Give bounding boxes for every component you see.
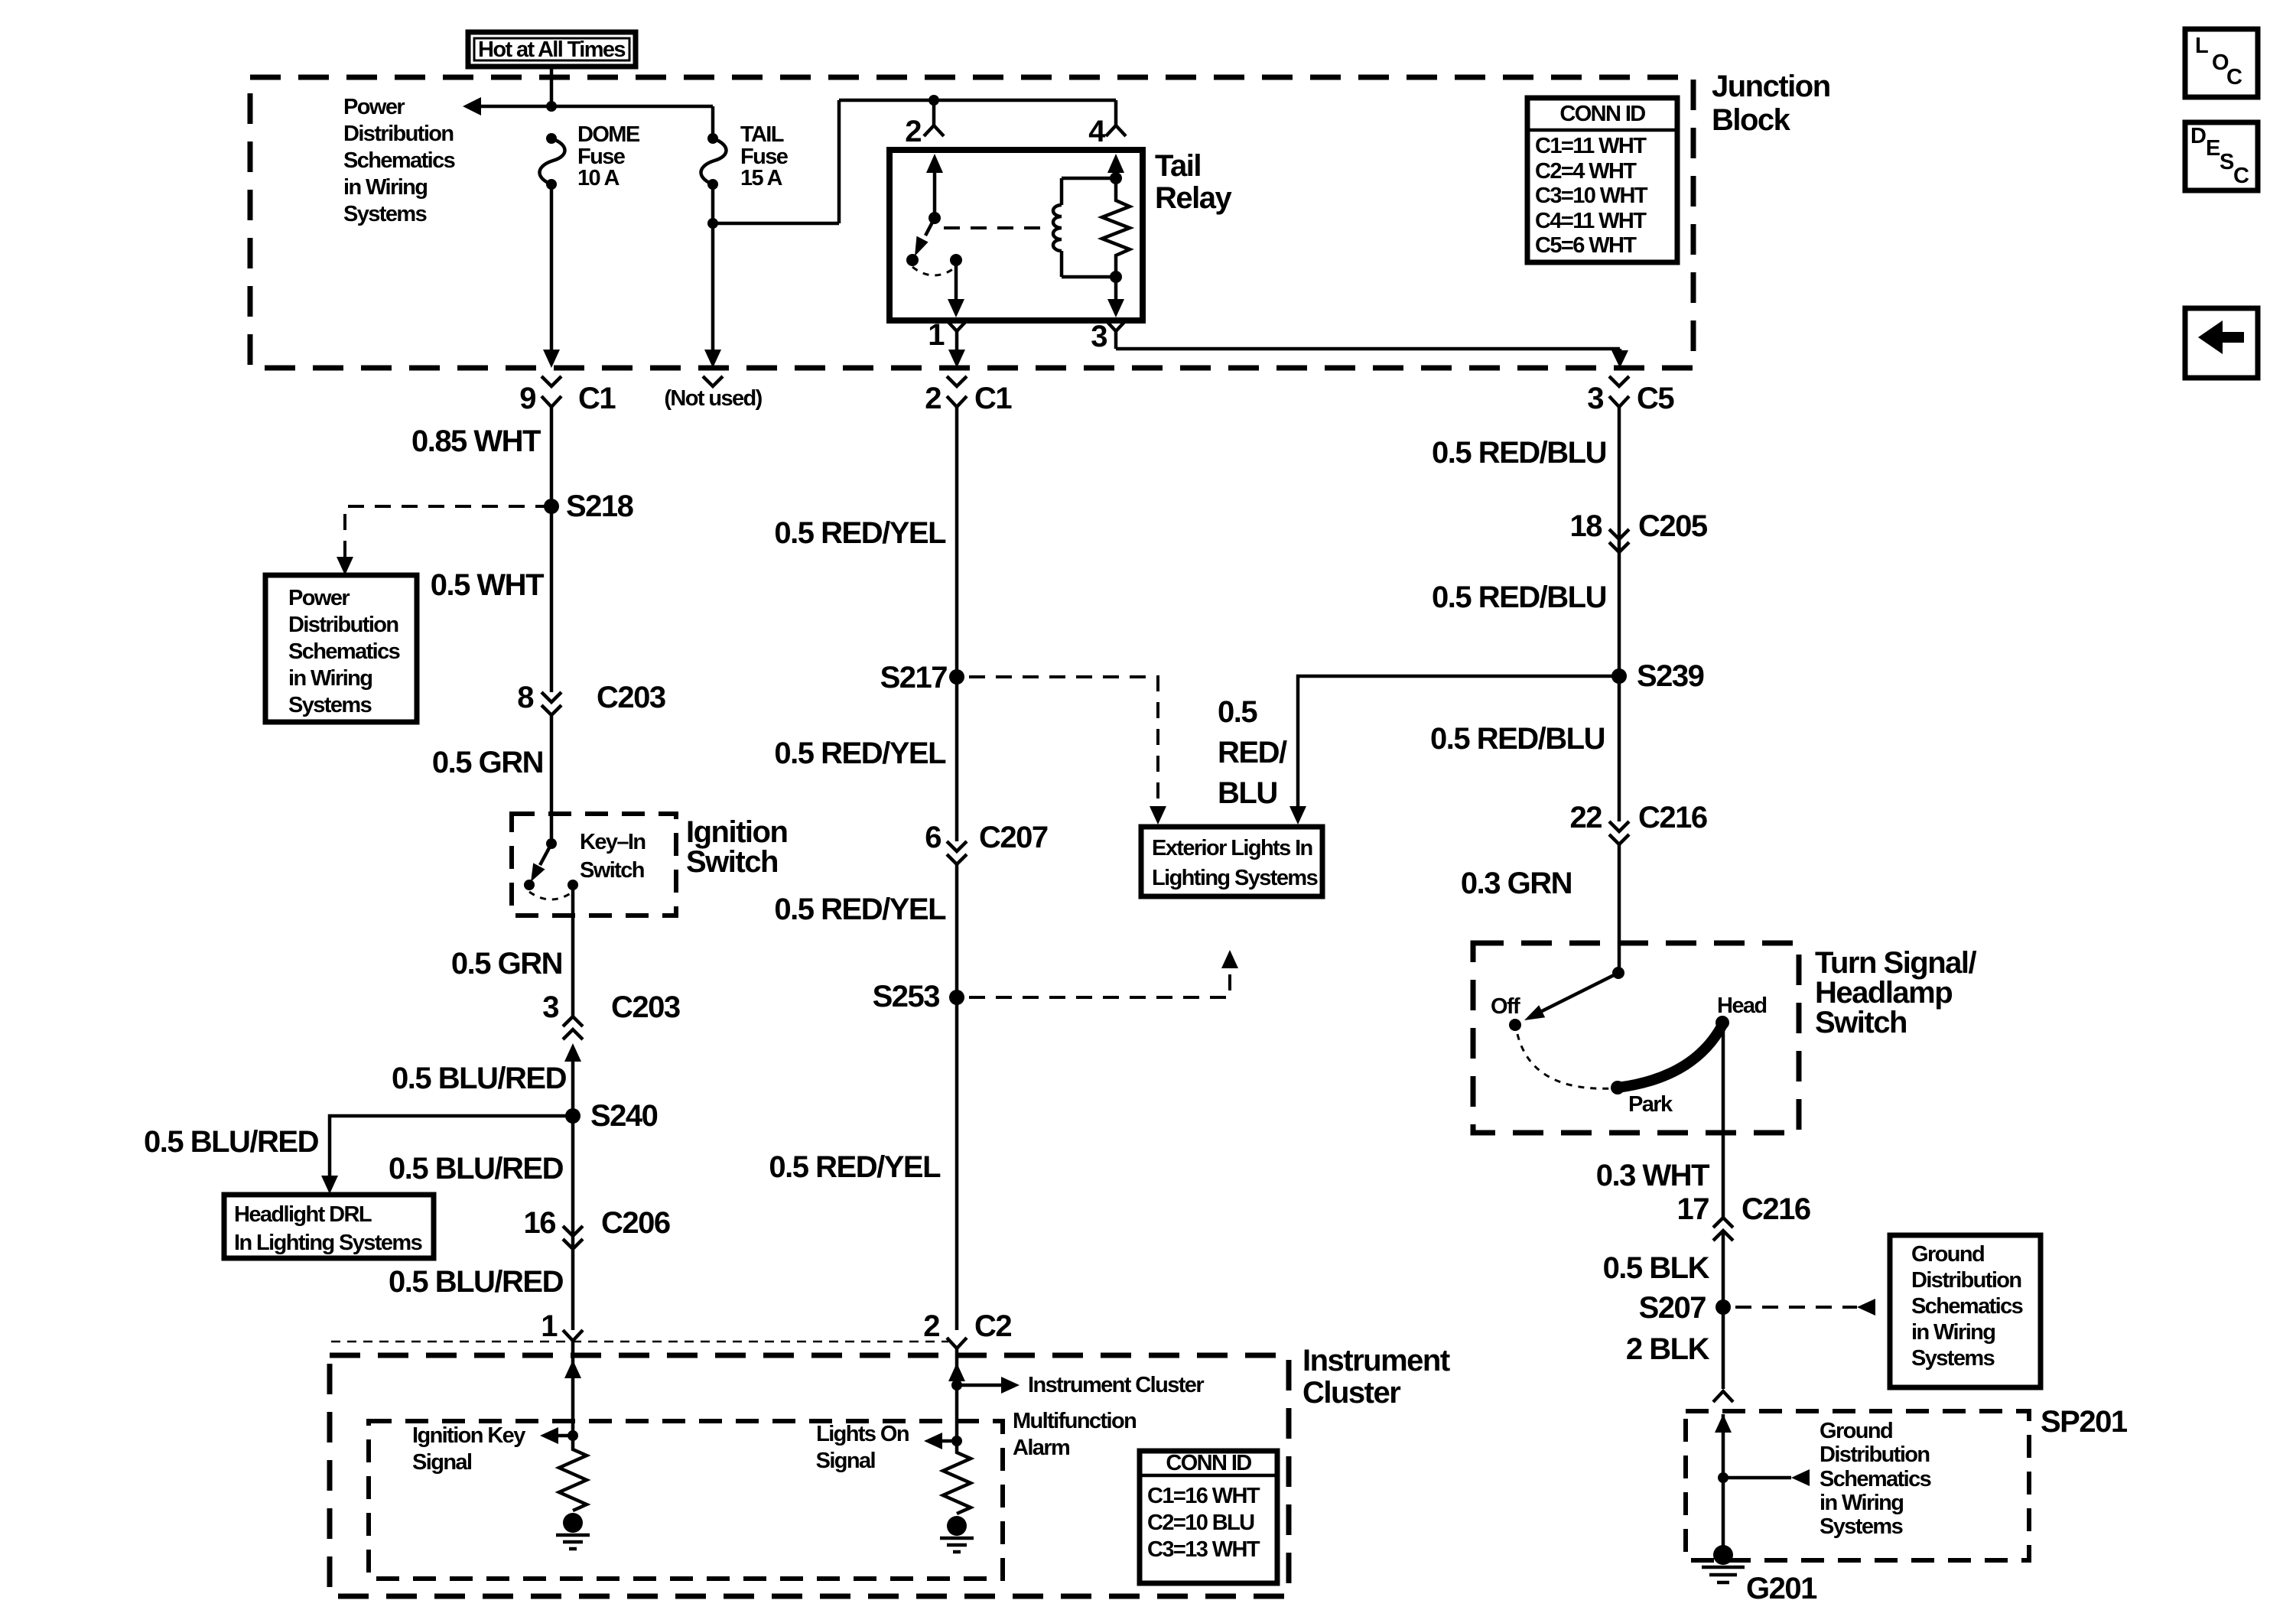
svg-text:0.3 GRN: 0.3 GRN: [1461, 867, 1572, 900]
wire 0.5 GRN: [550, 715, 554, 841]
svg-text:C203: C203: [611, 990, 680, 1024]
connector C205 pin 18: [1570, 509, 1708, 552]
svg-text:0.5: 0.5: [1218, 695, 1257, 729]
svg-text:Park: Park: [1628, 1092, 1673, 1117]
label 0.5 RED/YEL (to S253): [774, 893, 946, 926]
svg-text:C206: C206: [601, 1206, 670, 1240]
connector C1 pin 9: [519, 376, 616, 415]
label 0.5 GRN (below ignition): [451, 947, 562, 981]
svg-text:Signal: Signal: [412, 1450, 471, 1475]
wire 0.5 BLK: [1722, 1231, 1725, 1389]
svg-text:0.5 BLU/RED: 0.5 BLU/RED: [389, 1265, 564, 1299]
svg-text:22: 22: [1570, 801, 1602, 834]
wire 0.85 WHT: [550, 407, 554, 692]
svg-text:0.5 BLU/RED: 0.5 BLU/RED: [392, 1062, 567, 1095]
wire 0.5 BLU/RED with up arrow: [564, 1043, 581, 1330]
relay switch blade: [915, 218, 935, 256]
DESC tab: [2185, 122, 2258, 190]
label Multifunction Alarm: [1013, 1409, 1136, 1460]
node: bus junction dot at DOME feed: [546, 101, 557, 112]
svg-text:Instrument Cluster: Instrument Cluster: [1028, 1373, 1204, 1397]
svg-text:0.5 GRN: 0.5 GRN: [451, 947, 562, 981]
svg-text:Distribution: Distribution: [288, 613, 398, 637]
svg-text:Exterior Lights In: Exterior Lights In: [1152, 836, 1312, 860]
svg-text:3: 3: [1587, 382, 1603, 415]
svg-text:Off: Off: [1491, 994, 1520, 1019]
svg-text:3: 3: [542, 990, 558, 1024]
wire S239 branch to Exterior Lights: [1289, 676, 1619, 825]
label 0.5 RED/BLU (C205 to S239): [1432, 581, 1606, 614]
relay switch contacts: [906, 254, 962, 266]
svg-text:15 A: 15 A: [740, 166, 782, 190]
svg-text:0.5 RED/YEL: 0.5 RED/YEL: [769, 1150, 941, 1184]
relay pin 1 lead below box: [928, 318, 967, 368]
svg-text:Switch: Switch: [580, 858, 644, 883]
label 0.5 BLU/RED (branch): [144, 1125, 319, 1159]
svg-text:2: 2: [923, 1309, 939, 1343]
fuse TAIL (15 A): [701, 133, 726, 190]
label 0.5 BLU/RED (to cluster): [389, 1265, 564, 1299]
label Instrument Cluster: [1302, 1344, 1450, 1410]
svg-text:0.5 RED/YEL: 0.5 RED/YEL: [774, 893, 946, 926]
dashed wire S253 to Exterior Lights: [969, 950, 1238, 997]
svg-text:1: 1: [928, 318, 945, 352]
label 0.5 BLU/RED: [392, 1062, 567, 1095]
label Ignition Key Signal: [412, 1423, 525, 1475]
svg-text:TAIL: TAIL: [740, 122, 784, 147]
svg-text:S240: S240: [590, 1099, 658, 1133]
connector into SP201: [1713, 1391, 1733, 1402]
svg-text:0.5 BLU/RED: 0.5 BLU/RED: [389, 1152, 564, 1186]
dashed wire S207 to Ground Distribution ref: [1735, 1299, 1875, 1316]
ground (lights on): [940, 1516, 974, 1552]
relay actuation dashed link: [944, 226, 1040, 229]
label 0.5 RED/YEL (to C2): [769, 1150, 941, 1184]
svg-text:C3=13 WHT: C3=13 WHT: [1147, 1537, 1260, 1562]
svg-text:3: 3: [1091, 320, 1107, 353]
label Ignition Switch: [686, 815, 787, 879]
svg-text:0.5 BLU/RED: 0.5 BLU/RED: [144, 1125, 319, 1159]
svg-text:BLU: BLU: [1218, 776, 1277, 810]
svg-text:C2: C2: [974, 1309, 1011, 1343]
svg-text:C5=6 WHT: C5=6 WHT: [1535, 233, 1637, 258]
wire: TAIL (Not used) drop: [704, 223, 721, 368]
label 0.5 RED/YEL (S217 to C207): [774, 737, 946, 770]
label Instrument Cluster (small): [1028, 1373, 1204, 1397]
svg-text:Distribution: Distribution: [343, 122, 454, 146]
svg-text:S218: S218: [566, 490, 634, 523]
svg-text:Power: Power: [343, 95, 405, 119]
svg-text:In Lighting Systems: In Lighting Systems: [234, 1231, 422, 1255]
connector C203 pin 8: [517, 681, 665, 715]
relay pin 3 lead below box: [1091, 320, 1628, 368]
relay pin 4 inside arrow: [1107, 154, 1124, 178]
svg-text:2: 2: [905, 115, 921, 148]
fuse DOME (10 A): [539, 133, 564, 190]
connector C203 pin 3: [542, 990, 680, 1039]
relay pin 3 inside arrow: [948, 260, 1124, 317]
svg-text:Ignition Key: Ignition Key: [412, 1423, 525, 1448]
svg-text:in Wiring: in Wiring: [1911, 1320, 1995, 1345]
label 0.3 WHT: [1596, 1159, 1709, 1192]
svg-text:Distribution: Distribution: [1820, 1442, 1930, 1467]
label Key-In Switch: [580, 830, 646, 883]
svg-text:in Wiring: in Wiring: [343, 175, 427, 200]
label 0.5 RED/BLU: [1432, 436, 1606, 470]
svg-text:S207: S207: [1639, 1291, 1706, 1325]
svg-text:C5: C5: [1637, 382, 1674, 415]
svg-text:Relay: Relay: [1155, 181, 1232, 215]
multifunction alarm dashed box: [369, 1421, 1003, 1579]
svg-text:0.5 RED/BLU: 0.5 RED/BLU: [1432, 436, 1606, 470]
svg-text:Lights On: Lights On: [816, 1422, 909, 1446]
svg-text:Alarm: Alarm: [1013, 1436, 1069, 1460]
connector C216 pin 22: [1570, 801, 1707, 844]
label: Power Distribution Schematics in Wiring Systems (junction block): [343, 95, 455, 226]
contact Park: [1611, 1081, 1673, 1117]
svg-text:C: C: [2233, 164, 2249, 188]
wire key-in switch output: [571, 885, 575, 1016]
power feed bus wire (left): [481, 105, 713, 109]
label 0.5 GRN: [432, 746, 543, 779]
relay pin 2 connector: [905, 100, 944, 148]
svg-text:Ground: Ground: [1820, 1419, 1892, 1443]
svg-text:0.5 RED/BLU: 0.5 RED/BLU: [1430, 722, 1605, 756]
wire: bus drop to TAIL fuse: [711, 106, 715, 138]
svg-text:4: 4: [1088, 115, 1106, 148]
svg-text:Headlight DRL: Headlight DRL: [234, 1202, 372, 1227]
svg-text:0.5 RED/YEL: 0.5 RED/YEL: [774, 737, 946, 770]
svg-text:C1: C1: [974, 382, 1012, 415]
label Lights On Signal: [816, 1422, 909, 1473]
svg-text:Systems: Systems: [1820, 1514, 1903, 1539]
label (Not used): [664, 386, 762, 411]
wire 0.5 RED/BLU (C5 to S239): [1618, 407, 1621, 821]
thin dashed connector grouping line C2: [331, 1341, 948, 1343]
connector chevron (Not used): [703, 376, 723, 386]
svg-text:Schematics: Schematics: [1911, 1294, 2023, 1319]
svg-text:Lighting Systems: Lighting Systems: [1152, 866, 1318, 890]
svg-text:S239: S239: [1637, 659, 1704, 693]
svg-text:Schematics: Schematics: [1820, 1467, 1931, 1491]
node lights-on signal branch: [924, 1433, 962, 1449]
svg-text:CONN ID: CONN ID: [1166, 1451, 1251, 1475]
svg-text:Headlamp: Headlamp: [1815, 976, 1952, 1010]
label Junction Block: [1712, 70, 1830, 137]
wire: TAIL fuse to relay feed riser: [707, 100, 839, 229]
contact Head: [1715, 994, 1767, 1029]
svg-text:Signal: Signal: [816, 1449, 875, 1473]
svg-text:Schematics: Schematics: [288, 639, 400, 664]
switch wiper thick arc Park to Head: [1618, 1025, 1722, 1088]
svg-text:Tail: Tail: [1155, 149, 1201, 183]
svg-text:C1=16 WHT: C1=16 WHT: [1147, 1484, 1260, 1508]
relay coil stubs: [1062, 172, 1122, 283]
resistor (lights on): [943, 1441, 971, 1514]
label TAIL Fuse 15 A: [740, 122, 789, 190]
wire from Hot box into junction block: [550, 67, 554, 106]
ignition switch dashed box: [512, 814, 676, 916]
svg-text:Cluster: Cluster: [1302, 1376, 1400, 1410]
label 0.5 BLU/RED (below S240): [389, 1152, 564, 1186]
svg-text:16: 16: [524, 1206, 556, 1240]
svg-text:C2=4 WHT: C2=4 WHT: [1535, 159, 1637, 184]
connector C2 pin 1: [541, 1309, 583, 1343]
connector C2 pin 2: [923, 1309, 1011, 1348]
svg-text:RED/: RED/: [1218, 736, 1287, 769]
wire 0.5 RED/YEL (C1 to S217): [955, 407, 959, 841]
key-in switch contacts and blade: [524, 838, 578, 899]
turn signal / headlamp switch dashed box: [1473, 943, 1799, 1133]
svg-text:0.3 WHT: 0.3 WHT: [1596, 1159, 1709, 1192]
svg-text:C205: C205: [1638, 509, 1708, 543]
svg-text:Junction: Junction: [1712, 70, 1830, 103]
label 0.5 BLK: [1603, 1251, 1710, 1285]
CONN ID table (junction block): [1527, 98, 1677, 262]
svg-text:C203: C203: [597, 681, 665, 714]
svg-text:SP201: SP201: [2041, 1405, 2128, 1439]
tail relay box: [889, 150, 1143, 320]
svg-text:Turn Signal/: Turn Signal/: [1815, 946, 1977, 980]
dashed wire S218 to Power Distribution ref: [337, 506, 551, 575]
svg-text:S: S: [2220, 150, 2234, 174]
Exterior Lights ref box: [1141, 827, 1322, 896]
wire 0.3 GRN: [1618, 844, 1621, 973]
svg-text:2 BLK: 2 BLK: [1626, 1332, 1710, 1366]
node S217: [880, 661, 964, 694]
svg-text:9: 9: [519, 382, 535, 415]
label SP201: [2041, 1405, 2128, 1439]
svg-text:E: E: [2206, 136, 2220, 161]
Power Distribution Schematics ref box: [265, 575, 417, 722]
wire into SP201 to ground: [1715, 1414, 1732, 1555]
node ignition key signal branch: [540, 1427, 578, 1444]
node instrument cluster branch: [951, 1377, 1020, 1394]
svg-text:C2=10 BLU: C2=10 BLU: [1147, 1511, 1254, 1535]
contact Off: [1509, 1019, 1521, 1031]
headlamp switch pivot: [1524, 967, 1624, 1020]
svg-text:0.5 BLK: 0.5 BLK: [1603, 1251, 1710, 1285]
svg-text:Systems: Systems: [343, 202, 427, 226]
svg-text:C: C: [2226, 65, 2242, 89]
svg-text:0.5 RED/BLU: 0.5 RED/BLU: [1432, 581, 1606, 614]
svg-text:6: 6: [925, 821, 941, 854]
relay resistor: [1102, 178, 1130, 277]
arrow to Power Distribution Schematics: [463, 97, 481, 115]
connector C1 pin 2 (middle column): [925, 376, 1012, 415]
wire into instrument cluster (ignition key): [564, 1341, 581, 1436]
node S253: [873, 980, 964, 1013]
svg-text:D: D: [2190, 124, 2206, 148]
label 0.5 RED/YEL: [774, 516, 946, 550]
svg-text:Systems: Systems: [1911, 1346, 1995, 1371]
dashed travel arc Off to Park: [1517, 1034, 1614, 1088]
node S239: [1611, 659, 1704, 693]
svg-text:Power: Power: [288, 586, 350, 610]
label 0.5 RED/BLU (S239 to C216): [1430, 722, 1605, 756]
wire 0.3 WHT (Head down): [1722, 1023, 1725, 1218]
svg-text:C216: C216: [1638, 801, 1707, 834]
svg-text:C1=11 WHT: C1=11 WHT: [1535, 134, 1647, 158]
wire S240 branch to Headlight DRL: [321, 1116, 573, 1194]
label Off: [1491, 994, 1520, 1019]
svg-text:CONN ID: CONN ID: [1559, 102, 1645, 126]
wire into instrument cluster (lights on): [948, 1348, 965, 1441]
svg-text:C216: C216: [1742, 1192, 1810, 1226]
label 0.3 GRN: [1461, 867, 1572, 900]
svg-text:in Wiring: in Wiring: [288, 666, 372, 691]
svg-text:S217: S217: [880, 661, 948, 694]
back arrow button: [2185, 308, 2258, 378]
relay switch common (pin 2 inside): [926, 154, 943, 224]
svg-text:Switch: Switch: [1815, 1006, 1907, 1039]
svg-text:18: 18: [1570, 509, 1603, 543]
svg-text:Multifunction: Multifunction: [1013, 1409, 1136, 1433]
svg-text:Ground: Ground: [1911, 1242, 1984, 1267]
connector C216 pin 17: [1677, 1192, 1810, 1241]
connector C5 pin 3 (right column): [1587, 376, 1674, 415]
label 2 BLK: [1626, 1332, 1710, 1366]
Hot at All Times flag box: [468, 32, 636, 67]
svg-text:Key–In: Key–In: [580, 830, 646, 854]
svg-text:1: 1: [541, 1309, 558, 1343]
svg-text:Distribution: Distribution: [1911, 1268, 2021, 1293]
relay coil: [1053, 178, 1062, 277]
CONN ID table (instrument cluster): [1140, 1451, 1277, 1583]
node SP201 branch dot: [1718, 1469, 1810, 1486]
svg-text:0.5 WHT: 0.5 WHT: [431, 568, 544, 602]
wire: DOME fuse drop to C1 pin 9: [543, 184, 560, 368]
svg-text:Schematics: Schematics: [343, 148, 455, 173]
connector C207 pin 6: [925, 821, 1048, 864]
svg-text:L: L: [2195, 34, 2208, 58]
svg-text:10 A: 10 A: [577, 166, 620, 190]
svg-text:S253: S253: [873, 980, 940, 1013]
svg-text:0.85 WHT: 0.85 WHT: [411, 424, 541, 458]
svg-text:2: 2: [925, 382, 941, 415]
svg-text:0.5 GRN: 0.5 GRN: [432, 746, 543, 779]
wire: relay top bus: [839, 95, 1116, 106]
ground (ignition key): [556, 1513, 590, 1549]
svg-text:C4=11 WHT: C4=11 WHT: [1535, 209, 1647, 233]
svg-text:8: 8: [517, 681, 534, 714]
svg-text:0.5 RED/YEL: 0.5 RED/YEL: [774, 516, 946, 550]
label 0.5 RED/ BLU (stack): [1218, 695, 1287, 810]
label 0.5 WHT: [431, 568, 544, 602]
svg-text:C3=10 WHT: C3=10 WHT: [1535, 184, 1648, 208]
ground G201: [1702, 1545, 1817, 1605]
svg-text:C1: C1: [578, 382, 616, 415]
resistor (ignition key): [559, 1436, 587, 1511]
svg-text:Systems: Systems: [288, 693, 372, 717]
svg-text:Instrument: Instrument: [1302, 1344, 1450, 1377]
svg-text:(Not used): (Not used): [664, 386, 762, 411]
relay pin 4 connector: [1088, 100, 1126, 148]
connector C206 pin 16: [524, 1206, 670, 1249]
svg-text:G201: G201: [1746, 1572, 1817, 1605]
SP201 dashed box: [1686, 1411, 2029, 1560]
svg-text:DOME: DOME: [577, 122, 640, 147]
dashed wire S217 to Exterior Lights: [969, 677, 1166, 825]
wire 0.5 RED/YEL (C207 to S253): [955, 864, 959, 1330]
svg-text:in Wiring: in Wiring: [1820, 1491, 1903, 1515]
svg-text:Switch: Switch: [686, 845, 778, 879]
Headlight DRL ref box: [224, 1195, 434, 1258]
svg-text:C207: C207: [979, 821, 1048, 854]
label DOME Fuse 10 A: [577, 122, 640, 190]
svg-text:Block: Block: [1712, 103, 1791, 137]
instrument cluster dashed box: [330, 1355, 1289, 1596]
node S218: [544, 490, 634, 523]
svg-text:17: 17: [1677, 1192, 1709, 1226]
label 0.85 WHT: [411, 424, 541, 458]
label Turn Signal/ Headlamp Switch: [1815, 946, 1977, 1039]
svg-text:Head: Head: [1717, 994, 1767, 1018]
svg-text:Ignition: Ignition: [686, 815, 787, 849]
svg-text:Hot at All Times: Hot at All Times: [478, 37, 625, 62]
node S240: [565, 1099, 658, 1133]
label Tail Relay: [1155, 149, 1232, 215]
node S207: [1639, 1291, 1731, 1325]
label Ground Distribution Schematics in Wiring Systems (SP201): [1820, 1419, 1931, 1539]
junction block dashed border: [250, 77, 1693, 368]
relay switch travel arc (dashed): [912, 267, 956, 275]
LOC tab: [2185, 29, 2258, 97]
Ground Distribution Schematics ref box: [1890, 1235, 2041, 1387]
